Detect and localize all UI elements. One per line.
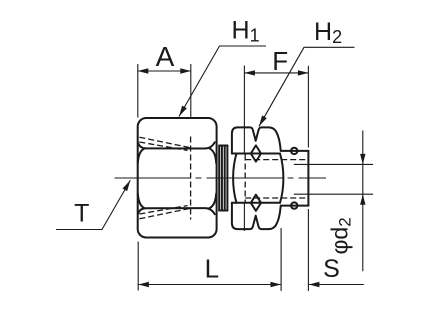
dimension phi d2 xyxy=(294,163,373,165)
hidden thread lines top xyxy=(139,137,190,148)
svg-text:L: L xyxy=(205,253,219,283)
nut body (large hex) xyxy=(138,118,217,238)
hex flat divider bottom xyxy=(138,208,215,214)
stub pipe end xyxy=(282,150,309,152)
svg-text:A: A xyxy=(156,41,175,72)
label H2 leader xyxy=(259,47,355,126)
hidden hole bottom line xyxy=(190,137,192,220)
sleeve rings between nuts xyxy=(219,146,227,211)
union nut knurl band top xyxy=(232,127,281,153)
hex flat divider top xyxy=(138,142,215,148)
dimension S xyxy=(309,284,364,286)
svg-text:S: S xyxy=(323,255,340,283)
knurl diamond bottom xyxy=(251,195,261,211)
stub circles xyxy=(291,148,297,154)
svg-text:T: T xyxy=(74,200,89,228)
bore hidden lines xyxy=(244,155,246,203)
union nut knurl band bottom xyxy=(232,203,281,229)
dimension A xyxy=(137,64,139,118)
chamfer arcs top xyxy=(210,149,217,164)
chamfer arcs bottom xyxy=(210,194,217,209)
label H1 leader xyxy=(179,46,266,117)
svg-text:F: F xyxy=(272,46,288,76)
hidden thread lines bottom xyxy=(139,208,190,219)
dimension L xyxy=(137,242,139,291)
knurl diamond top xyxy=(251,145,261,161)
label T leader xyxy=(56,180,130,229)
union nut barrel xyxy=(233,154,236,203)
centerline xyxy=(115,177,327,179)
dimension F xyxy=(243,66,245,154)
